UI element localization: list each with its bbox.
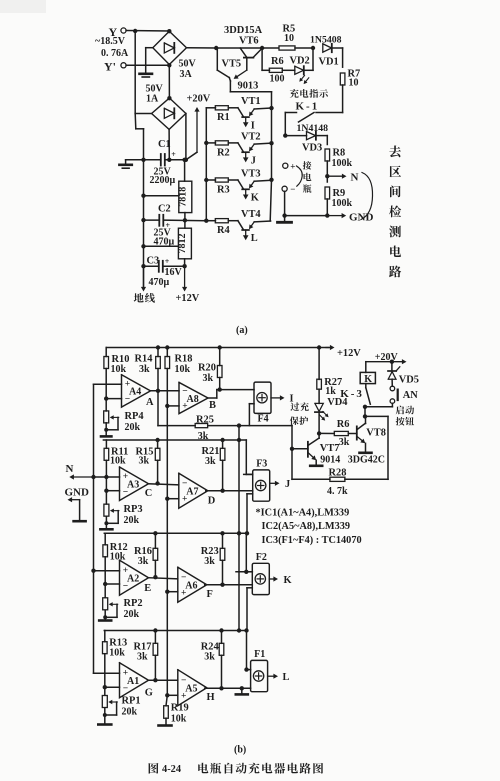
svg-text:(b): (b) <box>234 745 246 756</box>
svg-text:VT8: VT8 <box>366 427 386 438</box>
capacitor C3 470u 16V <box>141 256 187 289</box>
svg-text:B: B <box>209 400 216 411</box>
+20V supply arrow <box>186 94 211 160</box>
wire <box>205 583 253 587</box>
svg-text:VT5: VT5 <box>222 59 242 70</box>
svg-text:20k: 20k <box>125 422 141 433</box>
resistor R27 1k <box>317 348 342 404</box>
svg-text:C3: C3 <box>147 256 160 267</box>
svg-text:3k: 3k <box>139 456 150 467</box>
resistor R3 <box>204 178 238 196</box>
node GND <box>65 486 90 521</box>
node H <box>207 692 215 703</box>
svg-text:A6: A6 <box>185 581 197 592</box>
wire <box>230 81 271 92</box>
svg-text:3DD15A: 3DD15A <box>224 25 263 36</box>
diode VD5 <box>388 362 419 387</box>
node N <box>66 463 94 480</box>
svg-text:3k: 3k <box>139 364 150 375</box>
svg-text:H: H <box>207 692 215 703</box>
transistor VT5 9013 <box>217 48 258 92</box>
svg-text:VD5: VD5 <box>399 375 419 386</box>
resistor R24 3k <box>201 631 224 689</box>
svg-text:G: G <box>145 687 153 698</box>
svg-text:L: L <box>251 233 258 244</box>
resistor R23 3k <box>201 533 225 584</box>
svg-text:+12V: +12V <box>176 293 200 304</box>
svg-text:+20V: +20V <box>187 94 211 105</box>
node F <box>207 589 213 600</box>
resistor R9 100k <box>325 187 353 218</box>
wire <box>166 406 168 499</box>
resistor R4 <box>204 219 238 237</box>
op-amp A5 <box>178 670 207 706</box>
wire <box>236 570 252 633</box>
svg-text:A5: A5 <box>185 684 197 695</box>
diode VD1 1N5408 <box>319 44 343 68</box>
svg-text:R14: R14 <box>135 353 153 364</box>
op-amp A7 <box>179 473 208 508</box>
bridge rectifier B2 50V 1A <box>146 84 186 130</box>
transistor VT4 <box>238 209 271 244</box>
svg-text:20k: 20k <box>122 707 138 718</box>
svg-text:F2: F2 <box>256 552 267 563</box>
svg-text:VT6: VT6 <box>239 36 259 47</box>
svg-text:GND: GND <box>65 486 90 498</box>
node G <box>145 678 178 698</box>
svg-text:3k: 3k <box>203 373 214 384</box>
wire <box>141 194 179 198</box>
node B <box>209 400 216 411</box>
resistor R28 4.7k <box>292 416 388 496</box>
node E <box>144 575 178 594</box>
wire <box>244 474 253 535</box>
svg-text:3k: 3k <box>198 431 209 442</box>
svg-text:3k: 3k <box>137 652 148 663</box>
push-button AN QiDongAnNiu <box>390 386 418 403</box>
svg-text:10k: 10k <box>111 364 127 375</box>
wire <box>205 108 207 221</box>
svg-text:3DG42C: 3DG42C <box>348 455 385 466</box>
svg-text:A7: A7 <box>186 487 198 498</box>
svg-text:R2: R2 <box>217 147 230 158</box>
wire <box>94 384 122 401</box>
svg-text:3k: 3k <box>204 652 215 663</box>
svg-text:E: E <box>144 583 151 594</box>
svg-text:F1: F1 <box>254 649 265 660</box>
resistor R10 10k <box>104 348 130 412</box>
svg-text:A: A <box>146 397 154 408</box>
svg-text:470μ: 470μ <box>149 277 170 288</box>
svg-text:F4: F4 <box>258 413 269 424</box>
svg-text:4-24: 4-24 <box>162 764 181 775</box>
ground lead DiXian <box>134 266 155 303</box>
svg-text:2200μ: 2200μ <box>150 175 176 186</box>
svg-text:3k: 3k <box>205 456 216 467</box>
transistor VT8 3DG42C <box>357 416 386 452</box>
svg-text:F: F <box>207 589 213 600</box>
svg-text:R28: R28 <box>329 467 347 478</box>
svg-text:VD2: VD2 <box>290 56 310 67</box>
svg-text:R6: R6 <box>271 56 284 67</box>
label GuoChongBaoHu <box>290 402 309 425</box>
wire <box>269 92 273 221</box>
svg-text:10k: 10k <box>171 714 187 725</box>
resistor R13 10k <box>103 631 128 696</box>
wire <box>249 404 254 426</box>
op-amp A4 <box>122 375 151 407</box>
wire <box>282 191 327 217</box>
wire <box>166 592 168 696</box>
svg-text:~18.5V: ~18.5V <box>95 36 126 47</box>
logic block F1 <box>244 649 289 692</box>
svg-text:20k: 20k <box>124 515 140 526</box>
wire <box>94 475 120 493</box>
svg-text:A4: A4 <box>129 387 141 398</box>
svg-text:VT1: VT1 <box>241 96 261 107</box>
wire N bus <box>91 384 95 673</box>
rail row4 <box>104 628 250 669</box>
svg-text:R1: R1 <box>217 112 230 123</box>
svg-text:+: + <box>290 162 295 172</box>
svg-text:−: − <box>290 184 295 194</box>
rail row2 <box>103 438 252 475</box>
svg-text:A1: A1 <box>127 676 139 687</box>
resistor R11 10k <box>104 440 128 504</box>
svg-text:RP3: RP3 <box>124 504 143 515</box>
svg-text:10k: 10k <box>110 552 126 563</box>
svg-text:C1: C1 <box>158 139 171 150</box>
svg-text:VT7: VT7 <box>320 443 340 454</box>
svg-text:N: N <box>66 463 74 475</box>
LED VD2 <box>290 48 314 84</box>
ground <box>140 48 153 77</box>
svg-text:10k: 10k <box>109 648 125 659</box>
svg-text:Y': Y' <box>104 60 116 74</box>
svg-text:A3: A3 <box>127 480 139 491</box>
resistor R25 3k <box>158 391 292 442</box>
ground <box>236 686 248 694</box>
+20V rail <box>366 352 407 364</box>
svg-text:K-3: K-3 <box>340 388 364 400</box>
svg-text:10: 10 <box>349 78 359 89</box>
wire <box>165 497 179 501</box>
wire <box>94 673 120 689</box>
wire <box>141 244 178 248</box>
svg-text:10k: 10k <box>110 456 126 467</box>
wire <box>166 499 168 592</box>
svg-text:N: N <box>351 172 359 184</box>
svg-text:VT2: VT2 <box>241 131 261 142</box>
svg-text:GND: GND <box>349 212 374 224</box>
svg-text:3k: 3k <box>138 556 149 567</box>
svg-text:20k: 20k <box>124 609 140 620</box>
label ~18.5V 0.76A <box>95 36 129 59</box>
svg-text:3k: 3k <box>339 437 350 448</box>
op-amp A3 <box>120 467 149 501</box>
node D <box>208 495 216 506</box>
svg-text:R4: R4 <box>217 225 230 236</box>
resistor R20 3k <box>198 348 222 390</box>
wire <box>206 489 253 493</box>
svg-text:1N5408: 1N5408 <box>310 35 342 46</box>
wire <box>135 114 143 289</box>
svg-text:RP2: RP2 <box>124 598 143 609</box>
op-amp A8 <box>179 382 208 413</box>
svg-text:0. 76A: 0. 76A <box>101 48 129 59</box>
wire <box>363 403 414 425</box>
logic block F4 <box>254 382 294 424</box>
svg-text:IC3(F1~F4) : TC14070: IC3(F1~F4) : TC14070 <box>262 535 362 546</box>
transistor VT1 <box>238 96 271 131</box>
potentiometer RP4 <box>101 411 144 437</box>
wire <box>184 114 188 163</box>
capacitor C2 470u 25V <box>141 204 206 248</box>
svg-text:K: K <box>251 193 259 204</box>
diode VD3 1N4148 <box>285 132 327 154</box>
terminal Y <box>109 25 127 39</box>
transistor VT3 <box>238 168 271 203</box>
wire <box>126 29 171 114</box>
svg-text:10: 10 <box>284 33 294 44</box>
label IC note <box>256 507 362 546</box>
wire <box>126 158 161 162</box>
svg-text:RP1: RP1 <box>122 696 141 707</box>
logic block F3 <box>253 459 291 501</box>
svg-text:*IC1(A1~A4),LM339: *IC1(A1~A4),LM339 <box>256 507 350 518</box>
svg-text:R20: R20 <box>198 362 216 373</box>
svg-text:VT3: VT3 <box>241 168 261 179</box>
resistor R18 10k <box>165 348 192 406</box>
resistor R19 10k <box>159 695 189 725</box>
LED VD4 <box>315 397 348 436</box>
caption (a) <box>236 325 248 336</box>
rail row3 <box>104 531 252 572</box>
svg-text:AN: AN <box>403 390 419 401</box>
switch K-3 <box>340 384 370 405</box>
svg-text:D: D <box>208 495 216 506</box>
svg-text:100: 100 <box>270 74 285 85</box>
svg-text:7812: 7812 <box>177 234 188 254</box>
svg-text:R3: R3 <box>217 184 230 195</box>
svg-text:VD3: VD3 <box>302 143 322 154</box>
svg-text:C2: C2 <box>158 204 171 215</box>
transistor VT2 <box>238 131 271 166</box>
node C <box>145 481 179 499</box>
svg-text:3A: 3A <box>180 69 193 80</box>
svg-text:C: C <box>145 488 153 499</box>
svg-text:VD1: VD1 <box>319 57 339 68</box>
resistor R2 <box>204 141 238 159</box>
svg-text:7818: 7818 <box>178 187 189 207</box>
potentiometer RP3 <box>100 504 142 529</box>
svg-text:1k: 1k <box>325 386 336 397</box>
svg-text:R19: R19 <box>171 703 189 714</box>
svg-text:1A: 1A <box>146 94 159 105</box>
svg-text:R18: R18 <box>175 353 193 364</box>
svg-text:+: + <box>165 257 170 266</box>
resistor R12 10k <box>103 533 128 597</box>
node GND <box>327 212 373 224</box>
svg-text:A8: A8 <box>187 394 199 405</box>
capacitor C1 2200u 25V <box>150 139 187 186</box>
resistor R15 3k <box>136 440 160 483</box>
op-amp A2 <box>120 560 149 595</box>
svg-text:+12V: +12V <box>337 348 361 359</box>
caption figure title <box>149 763 324 775</box>
svg-text:9014: 9014 <box>320 455 340 466</box>
wire <box>205 686 251 690</box>
label ChongDianZhiShi <box>290 89 328 98</box>
svg-text:K: K <box>284 575 292 586</box>
wire <box>187 46 265 50</box>
relay K <box>360 362 375 385</box>
svg-text:10k: 10k <box>175 364 191 375</box>
op-amp A1 <box>120 663 149 698</box>
+12V output arrow <box>176 266 200 304</box>
transistor VT7 9014 <box>290 433 385 465</box>
wire <box>165 590 178 594</box>
wire <box>167 65 171 162</box>
resistor R6 3k <box>319 419 357 448</box>
svg-text:100k: 100k <box>332 198 353 209</box>
node N <box>327 172 358 184</box>
switch K-1 <box>283 101 343 138</box>
resistor R1 <box>206 106 238 124</box>
potentiometer RP1 <box>98 696 140 725</box>
resistor R5 10 <box>262 24 342 51</box>
logic block F2 <box>252 552 291 595</box>
resistor R14 3k <box>135 348 161 391</box>
node A <box>146 389 179 408</box>
resistor R21 3k <box>202 440 225 491</box>
svg-text:R6: R6 <box>337 419 350 430</box>
op-amp A6 <box>178 567 207 602</box>
svg-text:100k: 100k <box>332 158 353 169</box>
svg-text:RP4: RP4 <box>125 411 144 422</box>
svg-text:3k: 3k <box>204 556 215 567</box>
wire <box>94 571 120 587</box>
svg-text:J: J <box>251 155 256 166</box>
svg-text:9013: 9013 <box>238 81 259 92</box>
+12V rail <box>106 345 361 359</box>
resistor R8 100k <box>325 148 353 183</box>
regulator U2 7812 <box>177 220 191 258</box>
resistor R7 10 <box>340 69 360 113</box>
ground <box>119 160 131 168</box>
svg-text:1N4148: 1N4148 <box>297 123 329 134</box>
wire <box>165 693 178 697</box>
resistor R6 100 <box>262 48 295 85</box>
svg-text:R10: R10 <box>112 354 130 365</box>
bridge rectifier B1 50V 3A <box>153 29 197 80</box>
battery terminals JieDianPing <box>282 161 311 194</box>
svg-text:4. 7k: 4. 7k <box>327 486 348 497</box>
svg-text:R25: R25 <box>196 414 214 425</box>
svg-text:+: + <box>171 150 176 159</box>
svg-text:A2: A2 <box>127 574 139 585</box>
wire <box>165 404 179 408</box>
svg-text:IC2(A5~A8),LM339: IC2(A5~A8),LM339 <box>262 521 351 532</box>
svg-text:50V: 50V <box>179 59 197 70</box>
wire <box>208 387 254 398</box>
svg-text:VT4: VT4 <box>241 209 261 220</box>
ground <box>278 216 292 223</box>
svg-text:L: L <box>283 672 290 683</box>
transistor VT6 3DD15A <box>224 25 263 70</box>
svg-text:J: J <box>285 479 290 490</box>
regulator U1 7818 <box>178 160 192 213</box>
resistor R17 3k <box>134 631 158 681</box>
svg-text:I: I <box>251 120 255 131</box>
caption (b) <box>234 745 246 756</box>
svg-text:(a): (a) <box>236 325 248 336</box>
svg-text:K-1: K-1 <box>296 101 320 113</box>
brace QuQuJianJianCeDianLu <box>361 145 401 277</box>
potentiometer RP2 <box>99 598 142 621</box>
resistor R16 3k <box>134 533 158 577</box>
terminal Y' <box>104 60 126 74</box>
svg-text:F3: F3 <box>256 459 267 470</box>
wire bus <box>237 423 241 630</box>
svg-text:R8: R8 <box>333 148 346 159</box>
